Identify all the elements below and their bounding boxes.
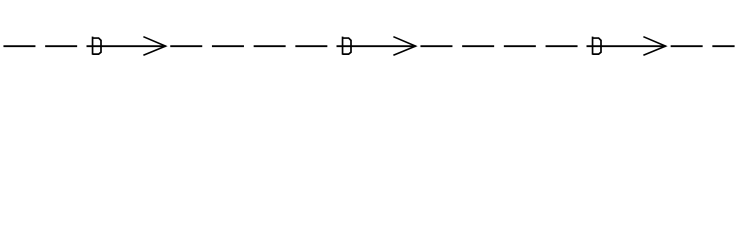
arrowhead 2 (flow direction) — [393, 37, 415, 56]
wire dash segment 2 — [45, 45, 77, 47]
label D (first drain-line letter) — [93, 37, 101, 55]
wire dash segment 1 — [3, 45, 35, 47]
wire dash segment 4 — [212, 45, 244, 47]
wire dash segment 5 — [254, 45, 286, 47]
label D (third drain-line letter) — [593, 37, 601, 55]
wire arrow shaft 3 (through letter D) — [587, 45, 666, 47]
wire arrow shaft 2 (through letter D) — [337, 45, 416, 47]
wire dash segment 11 — [671, 45, 703, 47]
wire dash segment 10 — [546, 45, 578, 47]
wire dash segment 8 — [462, 45, 494, 47]
arrowhead 1 (flow direction) — [143, 37, 165, 56]
wire dash segment 3 — [170, 45, 202, 47]
arrowhead 3 (flow direction) — [643, 37, 665, 56]
wire dash segment 9 — [504, 45, 536, 47]
wire dash segment 12 (truncated at line end) — [712, 45, 734, 47]
wire arrow shaft 1 (through letter D) — [87, 45, 166, 47]
wire dash segment 7 — [420, 45, 452, 47]
label D (second drain-line letter) — [343, 37, 351, 55]
wire dash segment 6 — [295, 45, 327, 47]
